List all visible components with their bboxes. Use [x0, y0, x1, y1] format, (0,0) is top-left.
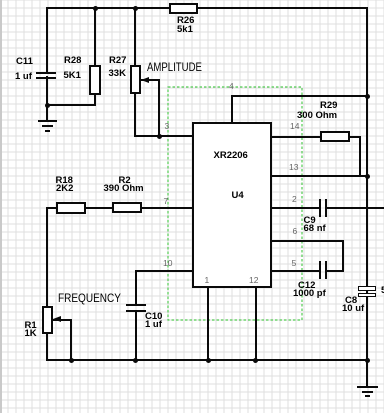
wire pin12 — [255, 288, 257, 361]
wire R1 bottom lead — [46, 333, 48, 361]
wire C11 bottom lead — [46, 76, 48, 106]
wire left vertical to R1 — [46, 207, 48, 307]
potentiometer R1 — [42, 306, 54, 334]
label C11 value — [15, 72, 32, 82]
potentiometer R27 — [130, 65, 141, 94]
label cut-off 5 at right edge — [381, 286, 384, 296]
pin 2 — [292, 195, 297, 204]
capacitor C12 — [319, 261, 321, 279]
ground left — [38, 120, 58, 122]
wire pin13 — [272, 175, 368, 177]
potentiometer R27 wiper arrow — [141, 77, 149, 83]
node R1 wiper / rail — [69, 358, 74, 363]
resistor R26 — [169, 3, 198, 14]
wire pin5 right — [327, 270, 344, 272]
wire R27 top lead — [134, 7, 136, 66]
node bus / rail — [365, 358, 370, 363]
resistor R28 — [89, 65, 101, 95]
capacitor C11 — [36, 72, 56, 74]
label R2 value — [104, 184, 144, 194]
pin 3 — [165, 122, 170, 131]
label R26 — [177, 16, 194, 26]
wire R29 right horizontal — [349, 136, 360, 138]
resistor R18 — [56, 202, 86, 214]
wire R29 right vertical — [359, 136, 361, 177]
wire top rail — [46, 7, 368, 9]
label C12 — [298, 281, 315, 291]
label C9 value — [304, 224, 326, 234]
label U4 — [232, 191, 244, 201]
wire pin3 — [134, 135, 192, 137]
label C8 value — [342, 304, 364, 314]
label C12 value — [293, 289, 326, 299]
node top rail / R27 — [133, 6, 138, 11]
label R28 — [64, 56, 81, 66]
capacitor C10 — [126, 304, 146, 306]
wire bottom rail — [46, 359, 368, 361]
wire pin4 vertical — [231, 95, 233, 123]
wire R28 top lead — [94, 7, 96, 66]
wire pin10 — [135, 270, 193, 272]
wire right ground stub — [366, 360, 368, 386]
wire pin14 — [272, 136, 320, 138]
node C11 / ground / R28 — [45, 103, 50, 108]
label AMPLITUDE — [147, 61, 202, 73]
selection box (green dashed) — [167, 86, 303, 321]
wire pin6 horizontal — [272, 240, 344, 242]
label C10 — [145, 312, 162, 322]
node top rail / R28 — [93, 6, 98, 11]
wire pin4 horizontal — [231, 95, 369, 97]
label XR2206 — [214, 151, 248, 161]
label R26 value — [177, 25, 193, 35]
label R28 value — [64, 71, 81, 81]
wire C11 top lead — [46, 7, 48, 73]
pin 7 — [164, 197, 169, 206]
label R27 — [109, 56, 126, 66]
label R2 — [119, 176, 131, 186]
op-amp U4 XR2206 chip body — [192, 122, 272, 289]
label R18 value — [56, 184, 73, 194]
label C8 — [345, 296, 357, 306]
wire pin6 vertical — [342, 240, 344, 271]
pin 6 — [293, 227, 298, 236]
label R27 value — [109, 69, 126, 79]
left page border strip — [0, 0, 2, 413]
wire pin2 right to edge — [327, 207, 384, 209]
node C10 / rail — [133, 358, 138, 363]
wire R27 wiper horizontal — [141, 79, 160, 81]
wire R1 wiper vertical — [70, 319, 72, 362]
resistor R29 — [320, 131, 350, 142]
label R29 value — [297, 111, 337, 121]
potentiometer R1 wiper arrow — [53, 316, 61, 322]
wire pin7 — [141, 207, 192, 209]
wire ground row — [46, 104, 96, 106]
node pin13 / bus — [365, 174, 370, 179]
ground right — [357, 386, 378, 388]
label R18 — [56, 176, 73, 186]
wire R18-R2 link — [85, 207, 113, 209]
node R27 wiper / pin3 — [157, 134, 162, 139]
resistor R2 — [112, 202, 142, 213]
node pin4 / bus — [365, 94, 370, 99]
pin 4 — [229, 82, 234, 91]
label C11 — [16, 57, 33, 67]
wire C10 bottom lead — [135, 311, 137, 361]
pin 14 — [290, 122, 299, 131]
pin 1 — [205, 276, 210, 285]
wire pin5 left — [272, 270, 319, 272]
wire R18 left — [46, 207, 57, 209]
wire R28 bottom lead — [94, 94, 96, 106]
pin 10 — [163, 259, 172, 268]
label C10 value — [145, 320, 162, 330]
wire left ground stub — [46, 104, 48, 121]
wire R27 wiper vertical — [158, 79, 160, 137]
label C9 — [304, 216, 316, 226]
wire C10 top lead — [135, 270, 137, 305]
label R29 — [320, 101, 337, 111]
wire right bus — [366, 7, 368, 361]
wire pin1 — [207, 288, 209, 361]
label R1 — [25, 321, 37, 331]
pin 5 — [292, 259, 297, 268]
capacitor C8 — [358, 286, 376, 291]
pin 12 — [249, 276, 258, 285]
pin 13 — [289, 163, 298, 172]
node pin1 / rail — [206, 358, 211, 363]
label FREQUENCY — [58, 292, 121, 304]
capacitor C9 — [319, 199, 321, 217]
node pin12 / rail — [253, 358, 258, 363]
wire pin2 left — [272, 207, 319, 209]
wire R1 wiper horizontal — [53, 319, 72, 321]
wire R27 bottom lead — [134, 93, 136, 137]
label R1 value — [25, 329, 37, 339]
